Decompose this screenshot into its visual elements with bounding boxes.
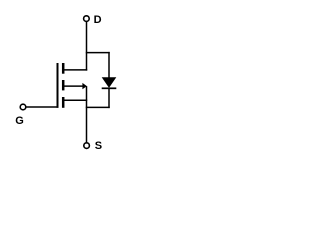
diode D1 triangle [102,77,117,88]
svg-text:D: D [94,14,102,26]
transistor Q1 body arrow [82,83,87,89]
wire drain to diode branch [86,52,110,54]
terminal D circle [84,16,90,22]
transistor Q1 gate line [57,63,59,108]
terminal G circle [20,104,26,110]
transistor Q1 channel bar bottom [62,97,65,108]
wire body line [64,85,83,87]
terminal S circle [84,143,90,149]
diode D1 cathode bar [102,87,117,89]
wire source vertical [86,86,88,142]
transistor Q1 channel bar top [62,63,65,74]
wire gate horizontal [26,106,58,108]
wire drain vertical [86,22,88,71]
wire drain to channel top [64,69,87,71]
wire source to diode branch [86,106,110,108]
wire diode anode vertical [108,52,110,78]
svg-text:S: S [95,140,102,152]
svg-text:G: G [15,115,24,127]
wire diode cathode vertical [108,88,110,108]
transistor Q1 channel bar middle [62,80,65,90]
wire channel bottom to source [64,99,87,101]
